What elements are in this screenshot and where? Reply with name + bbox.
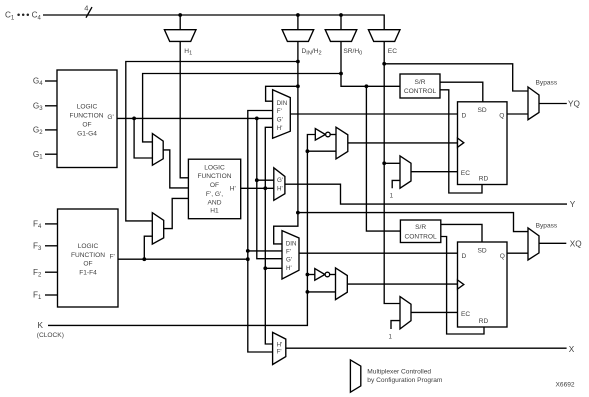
svg-text:OF: OF bbox=[210, 182, 219, 189]
svg-text:FUNCTION: FUNCTION bbox=[71, 252, 105, 259]
svg-text:EC: EC bbox=[388, 48, 397, 55]
svg-text:Y: Y bbox=[570, 200, 576, 209]
svg-text:YQ: YQ bbox=[568, 100, 580, 109]
svg-text:LOGIC: LOGIC bbox=[77, 104, 98, 111]
svg-text:SR/H0: SR/H0 bbox=[343, 48, 362, 56]
svg-text:F': F' bbox=[286, 248, 291, 255]
svg-text:XQ: XQ bbox=[570, 240, 582, 249]
svg-text:OF: OF bbox=[82, 122, 91, 129]
svg-text:D: D bbox=[462, 112, 467, 119]
svg-text:1: 1 bbox=[390, 192, 394, 199]
svg-text:SD: SD bbox=[478, 107, 487, 114]
svg-text:Multiplexer Controlled: Multiplexer Controlled bbox=[367, 368, 431, 375]
svg-text:by Configuration Program: by Configuration Program bbox=[367, 377, 443, 384]
svg-text:G2: G2 bbox=[33, 126, 43, 137]
svg-text:Bypass: Bypass bbox=[536, 79, 558, 86]
svg-text:F': F' bbox=[110, 253, 115, 260]
svg-text:EC: EC bbox=[461, 311, 470, 318]
svg-text:H': H' bbox=[277, 125, 283, 132]
svg-text:F', G',: F', G', bbox=[206, 191, 223, 198]
svg-text:Q: Q bbox=[500, 253, 505, 260]
svg-text:DIN: DIN bbox=[286, 240, 297, 247]
svg-text:D: D bbox=[462, 253, 467, 260]
svg-text:C1: C1 bbox=[5, 11, 15, 22]
svg-text:(CLOCK): (CLOCK) bbox=[37, 332, 64, 339]
svg-text:F1-F4: F1-F4 bbox=[79, 270, 97, 277]
svg-text:RD: RD bbox=[479, 318, 489, 325]
svg-text:Q: Q bbox=[499, 112, 504, 119]
svg-text:H1: H1 bbox=[184, 48, 192, 56]
svg-text:X6692: X6692 bbox=[556, 381, 575, 388]
svg-text:G': G' bbox=[107, 114, 113, 121]
svg-text:F2: F2 bbox=[33, 268, 42, 279]
svg-text:H1: H1 bbox=[210, 207, 219, 214]
svg-text:F': F' bbox=[277, 108, 282, 115]
svg-text:DIN/H2: DIN/H2 bbox=[302, 48, 322, 56]
svg-text:G4: G4 bbox=[33, 77, 43, 88]
svg-text:F': F' bbox=[277, 349, 282, 356]
svg-text:F4: F4 bbox=[33, 220, 42, 231]
svg-text:1: 1 bbox=[389, 334, 393, 341]
svg-text:G1: G1 bbox=[33, 150, 43, 161]
svg-text:H': H' bbox=[277, 185, 283, 192]
svg-text:C4: C4 bbox=[32, 11, 42, 22]
svg-text:OF: OF bbox=[83, 261, 92, 268]
svg-text:FUNCTION: FUNCTION bbox=[197, 173, 231, 180]
svg-text:G1-G4: G1-G4 bbox=[77, 130, 97, 137]
svg-text:G': G' bbox=[277, 116, 283, 123]
svg-text:CONTROL: CONTROL bbox=[404, 233, 437, 240]
svg-text:LOGIC: LOGIC bbox=[204, 164, 225, 171]
svg-text:H': H' bbox=[230, 185, 236, 192]
svg-text:G': G' bbox=[286, 257, 292, 264]
svg-text:G': G' bbox=[277, 177, 283, 184]
svg-text:4: 4 bbox=[84, 4, 88, 13]
svg-text:F3: F3 bbox=[33, 241, 42, 252]
svg-text:G3: G3 bbox=[33, 101, 43, 112]
svg-text:H': H' bbox=[277, 341, 283, 348]
svg-text:K: K bbox=[38, 321, 44, 330]
svg-text:AND: AND bbox=[208, 200, 222, 207]
svg-text:DIN: DIN bbox=[277, 100, 288, 107]
svg-text:SD: SD bbox=[478, 248, 487, 255]
svg-text:LOGIC: LOGIC bbox=[78, 243, 99, 250]
svg-text:Bypass: Bypass bbox=[536, 222, 558, 229]
svg-text:F1: F1 bbox=[33, 291, 42, 302]
svg-text:EC: EC bbox=[461, 170, 470, 177]
svg-text:H': H' bbox=[286, 265, 292, 272]
svg-text:X: X bbox=[569, 345, 575, 354]
svg-text:FUNCTION: FUNCTION bbox=[69, 113, 103, 120]
svg-text:S/R: S/R bbox=[415, 224, 426, 231]
svg-text:CONTROL: CONTROL bbox=[404, 88, 437, 95]
svg-text:S/R: S/R bbox=[415, 79, 426, 86]
svg-text:RD: RD bbox=[479, 176, 489, 183]
